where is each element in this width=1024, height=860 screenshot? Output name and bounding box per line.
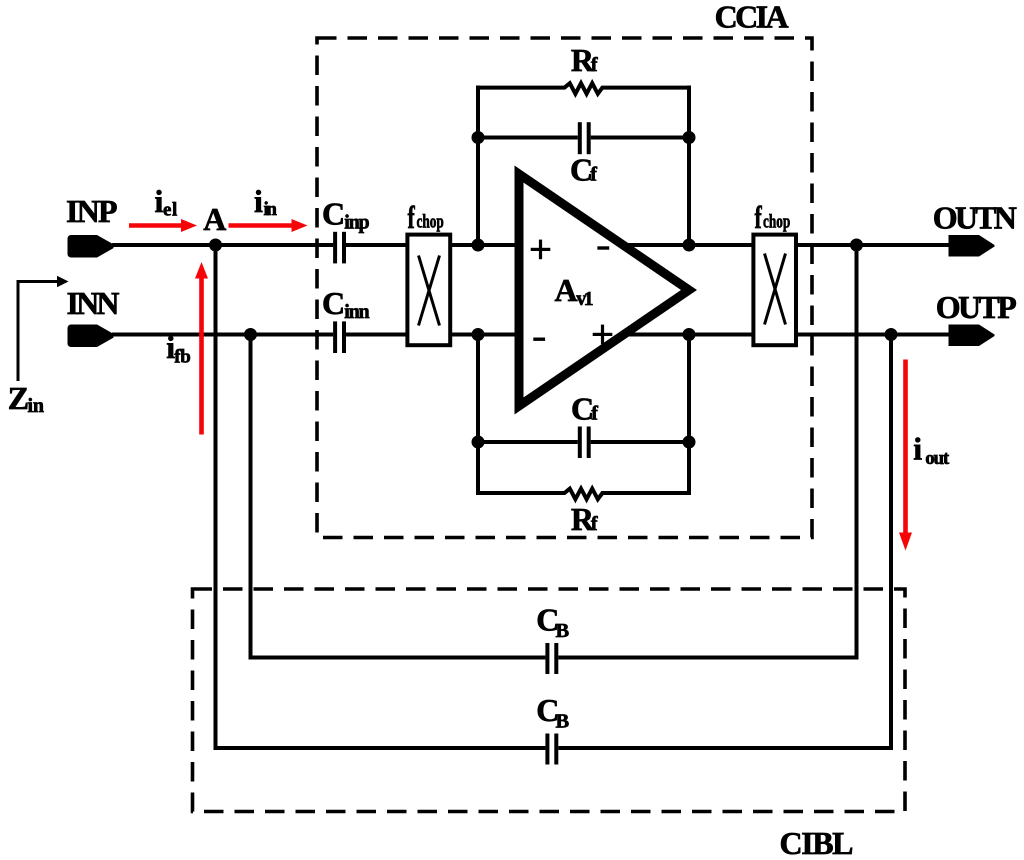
node INN tap dot bbox=[244, 328, 257, 341]
svg-text:CCIA: CCIA bbox=[715, 0, 789, 35]
svg-text:Z: Z bbox=[8, 380, 29, 416]
node A junction dot bbox=[209, 239, 222, 252]
node dot left feedback bottom rail bbox=[472, 328, 485, 341]
svg-text:out: out bbox=[925, 448, 950, 469]
chopper fchop left box bbox=[407, 235, 450, 346]
svg-text:i: i bbox=[254, 183, 263, 219]
capacitor CB upper bbox=[545, 643, 558, 674]
node dot right feedback Cf bottom bbox=[683, 436, 696, 449]
svg-text:f: f bbox=[591, 513, 598, 535]
wire bottom rail INN to OUTP bbox=[112, 333, 949, 337]
svg-text:f: f bbox=[591, 403, 598, 425]
svg-text:inn: inn bbox=[344, 301, 369, 323]
svg-text:in: in bbox=[28, 395, 45, 417]
op-amp minus top bbox=[597, 246, 609, 249]
op-amp plus bottom bbox=[593, 333, 613, 336]
CIBL dashed box bbox=[193, 589, 906, 812]
capacitor Cf top bbox=[578, 122, 591, 154]
node dot right feedback bottom rail bbox=[683, 328, 696, 341]
svg-text:CIBL: CIBL bbox=[780, 825, 854, 860]
red arrow i_out bbox=[903, 360, 908, 536]
resistor Rf top (zigzag wire) bbox=[478, 83, 689, 94]
terminal INN bbox=[68, 325, 114, 348]
svg-text:A: A bbox=[203, 201, 226, 237]
wire feedback right vertical top bbox=[687, 86, 691, 246]
red arrow i_in bbox=[229, 223, 295, 228]
node dot left feedback Cf bottom bbox=[472, 436, 485, 449]
node dot OUTN tap bbox=[850, 239, 863, 252]
svg-text:INN: INN bbox=[67, 285, 120, 321]
svg-text:f: f bbox=[408, 200, 416, 235]
svg-text:OUTP: OUTP bbox=[936, 289, 1017, 325]
resistor Rf bottom (zigzag wire) bbox=[478, 489, 689, 500]
capacitor Cf bottom bbox=[578, 427, 591, 459]
red arrow i_el bbox=[129, 223, 184, 228]
wire feedback right vertical bottom bbox=[687, 335, 691, 496]
svg-text:fb: fb bbox=[174, 347, 191, 368]
terminal OUTP bbox=[949, 325, 995, 347]
svg-text:B: B bbox=[556, 711, 570, 733]
capacitor Cinp bbox=[333, 232, 346, 264]
node dot left feedback Cf top bbox=[472, 131, 485, 144]
svg-text:f: f bbox=[591, 54, 598, 76]
svg-text:chop: chop bbox=[417, 210, 444, 232]
terminal INP bbox=[68, 235, 114, 258]
op-amp minus bottom bbox=[533, 338, 545, 341]
svg-text:f: f bbox=[590, 164, 597, 186]
svg-text:f: f bbox=[755, 200, 763, 235]
svg-text:el: el bbox=[163, 200, 177, 221]
node dot right feedback top rail bbox=[683, 239, 696, 252]
op-amp plus top bbox=[531, 248, 551, 251]
svg-text:OUTN: OUTN bbox=[933, 199, 1017, 235]
wire node A vertical + lower CIBL wire to OUTP bbox=[216, 245, 892, 748]
red arrow i_fb bbox=[199, 276, 204, 435]
svg-text:A: A bbox=[555, 272, 578, 308]
node dot right feedback Cf top bbox=[683, 131, 696, 144]
CCIA dashed box bbox=[317, 38, 812, 538]
chopper fchop right box bbox=[753, 235, 796, 346]
svg-text:i: i bbox=[913, 431, 922, 467]
wire Cf bottom bbox=[478, 440, 689, 444]
Zin arrow bbox=[18, 282, 60, 382]
wire INN tap vertical + upper CIBL wire to OUTN bbox=[251, 245, 857, 658]
svg-text:B: B bbox=[556, 620, 570, 642]
wire Cf top bbox=[478, 136, 689, 140]
wire feedback left vertical top bbox=[476, 86, 480, 246]
svg-text:C: C bbox=[322, 285, 345, 321]
wire feedback left vertical bottom bbox=[476, 335, 480, 496]
svg-text:v1: v1 bbox=[576, 288, 593, 310]
node dot OUTP tap bbox=[885, 328, 898, 341]
terminal OUTN bbox=[949, 235, 995, 257]
node dot left feedback top rail bbox=[472, 239, 485, 252]
op-amp Av1 triangle bbox=[519, 174, 689, 406]
wire top rail INP to OUTN bbox=[112, 243, 949, 247]
capacitor CB lower bbox=[545, 734, 558, 765]
svg-text:INP: INP bbox=[66, 193, 118, 229]
svg-text:inp: inp bbox=[344, 211, 369, 233]
svg-text:C: C bbox=[322, 196, 345, 232]
capacitor Cinn bbox=[333, 321, 346, 353]
svg-text:chop: chop bbox=[763, 210, 790, 232]
svg-text:in: in bbox=[264, 199, 278, 220]
